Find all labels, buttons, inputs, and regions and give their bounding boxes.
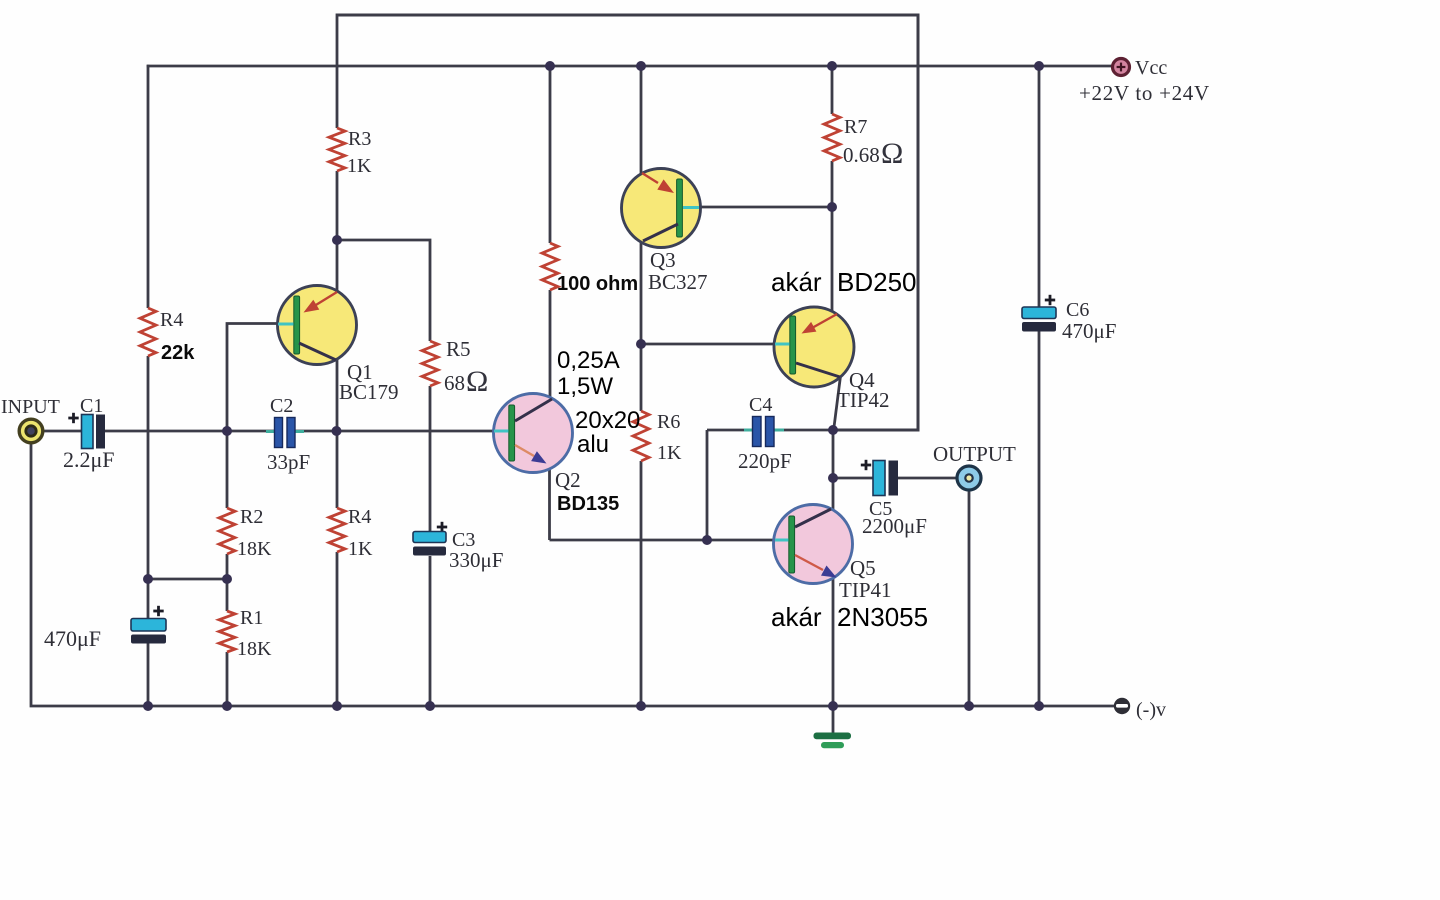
- wire C4 left: [707, 429, 754, 432]
- svg-text:Q2: Q2: [555, 468, 581, 492]
- svg-text:330μF: 330μF: [449, 548, 503, 572]
- junction node Q5 collector / C5: [828, 473, 838, 483]
- svg-text:akár: akár: [771, 602, 822, 632]
- svg-text:+22V to +24V: +22V to +24V: [1079, 81, 1210, 105]
- svg-text:C6: C6: [1066, 299, 1089, 321]
- junction node Vcc rail / Q3: [636, 61, 646, 71]
- wire Q5 emitter down: [832, 578, 835, 706]
- capacitor C3 330uF (polarized): [413, 522, 503, 572]
- resistor R1 18K: [219, 607, 272, 660]
- junction node R2 / R1: [222, 574, 232, 584]
- svg-text:1,5W: 1,5W: [557, 373, 613, 400]
- junction node Vcc rail / 100ohm: [545, 61, 555, 71]
- junction node rail C3: [425, 701, 435, 711]
- svg-text:Ω: Ω: [466, 365, 488, 398]
- svg-text:2N3055: 2N3055: [837, 602, 928, 632]
- svg-text:68: 68: [444, 371, 465, 395]
- junction node Vcc rail / C6: [1034, 61, 1044, 71]
- wire Q2 emitter to Q5 base: [550, 539, 776, 542]
- svg-text:R1: R1: [240, 607, 263, 629]
- transistor Q1 BC179: [278, 286, 399, 405]
- wire R4 1K bottom: [336, 552, 339, 706]
- wire top-rect left drop to R3: [336, 14, 339, 129]
- svg-text:R5: R5: [446, 337, 471, 361]
- wire node link 148-227: [148, 578, 227, 581]
- svg-text:Q5: Q5: [850, 556, 876, 580]
- svg-text:0,25A: 0,25A: [557, 347, 620, 374]
- wire C1 to C2: [105, 430, 276, 433]
- wire node to Q4 base: [641, 343, 775, 346]
- wire R7 top: [831, 66, 834, 114]
- svg-text:C1: C1: [80, 395, 103, 417]
- wire C3 bottom to rail: [429, 556, 432, 706]
- wire Q3 bottom to node: [640, 241, 643, 344]
- junction node Q4 collector / C4: [828, 425, 838, 435]
- svg-text:1K: 1K: [348, 538, 373, 560]
- svg-text:18K: 18K: [237, 538, 272, 560]
- wire R4 22k bottom to node: [147, 356, 150, 620]
- negative supply terminal (-)v: [1114, 698, 1166, 721]
- wire input jack to C1: [43, 430, 82, 433]
- svg-text:33pF: 33pF: [267, 450, 310, 474]
- wire R3 bottom to node: [336, 171, 339, 240]
- wire C5 to output jack: [898, 477, 957, 480]
- resistor R2 18K: [219, 506, 272, 560]
- wire C2 to Q2 base: [294, 430, 495, 433]
- junction node R3 bottom: [332, 235, 342, 245]
- wire 100ohm top: [549, 66, 552, 243]
- svg-text:R7: R7: [844, 116, 867, 138]
- capacitor C1 2.2uF (polarized): [63, 395, 115, 472]
- resistor R4 1K (bias): [329, 506, 373, 560]
- resistor R4 22k: [140, 308, 195, 364]
- wire Q2 emitter down: [548, 462, 551, 540]
- junction node rail R1: [222, 701, 232, 711]
- junction node Q3 / Q4 base / R6: [636, 339, 646, 349]
- svg-text:OUTPUT: OUTPUT: [933, 442, 1016, 466]
- wire Q4 collector to node: [834, 376, 841, 431]
- wire R6 bottom to rail: [640, 461, 643, 706]
- junction node rail R4b: [332, 701, 342, 711]
- svg-text:22k: 22k: [161, 342, 195, 364]
- junction node Vcc rail / R7: [827, 61, 837, 71]
- svg-text:TIP41: TIP41: [839, 578, 892, 602]
- svg-text:R3: R3: [348, 128, 371, 150]
- wire node to Q4 emitter: [831, 207, 834, 313]
- capacitor C5 2200uF (polarized): [861, 460, 927, 538]
- junction node R4 / 470uF: [143, 574, 153, 584]
- wire Q3 top: [640, 66, 643, 175]
- svg-text:2200μF: 2200μF: [862, 514, 927, 538]
- junction node rail R6: [636, 701, 646, 711]
- svg-text:100 ohm: 100 ohm: [557, 273, 638, 295]
- wire C4 right to node: [774, 429, 833, 432]
- svg-text:alu: alu: [577, 431, 609, 458]
- wire Q3 collector to R7 node: [699, 206, 832, 209]
- wire Q1 base branch: [227, 324, 278, 509]
- svg-text:akár: akár: [771, 267, 822, 297]
- junction node rail 470uF: [143, 701, 153, 711]
- svg-text:R4: R4: [160, 309, 183, 331]
- wire 100ohm bottom to Q2: [549, 290, 552, 398]
- Vcc terminal: [1079, 57, 1210, 105]
- wire C4 branch down: [706, 430, 709, 540]
- transistor Q5 TIP41: [774, 505, 892, 603]
- resistor R7 0.68ohm: [824, 114, 903, 170]
- junction node rail output: [964, 701, 974, 711]
- wire R5 bottom to C3: [429, 386, 432, 532]
- svg-text:20x20: 20x20: [575, 407, 640, 434]
- wire C6 bottom: [1038, 331, 1041, 706]
- resistor 100 ohm: [542, 243, 638, 295]
- wire Q1 collector down: [336, 358, 339, 508]
- svg-text:Ω: Ω: [881, 137, 903, 170]
- wire input down left side + ground rail: [31, 443, 1114, 706]
- wire C6 top: [1038, 66, 1041, 308]
- wire top-rect right drop: [834, 14, 918, 431]
- capacitor C4 220pF: [738, 394, 792, 473]
- wire R2 bottom: [226, 554, 229, 611]
- wire top feedback rail: [337, 14, 918, 17]
- svg-text:R4: R4: [348, 506, 371, 528]
- svg-text:INPUT: INPUT: [1, 396, 60, 418]
- transistor Q3 BC327: [622, 169, 708, 295]
- wire Vcc rail: [147, 65, 1113, 68]
- junction node rail C6: [1034, 701, 1044, 711]
- wire R7 bottom to node: [831, 161, 834, 208]
- svg-text:BC179: BC179: [339, 380, 399, 404]
- svg-text:220pF: 220pF: [738, 449, 792, 473]
- junction node R7 / Q3 collector: [827, 202, 837, 212]
- svg-text:18K: 18K: [237, 638, 272, 660]
- wire R4 22k top: [147, 65, 150, 308]
- svg-text:1K: 1K: [657, 442, 682, 464]
- junction node Q2 emitter / Q5 base: [702, 535, 712, 545]
- wire ground stub: [832, 706, 835, 734]
- svg-text:Vcc: Vcc: [1135, 57, 1167, 79]
- svg-text:2.2μF: 2.2μF: [63, 447, 115, 472]
- wire node to R5 top: [337, 240, 430, 341]
- svg-text:470μF: 470μF: [44, 626, 101, 651]
- resistor R6 1K: [633, 411, 682, 464]
- wire node to R6: [640, 344, 643, 411]
- svg-text:R2: R2: [240, 506, 263, 528]
- wire cap470 to ground rail: [147, 642, 150, 706]
- svg-text:0.68: 0.68: [843, 143, 880, 167]
- wire output jack down: [968, 491, 971, 706]
- svg-text:1K: 1K: [347, 155, 372, 177]
- wire Q4 node down to Q5 collector: [832, 430, 835, 511]
- junction node input / R2: [222, 426, 232, 436]
- capacitor 470uF (input decoupling, polarized): [44, 606, 166, 651]
- output jack: [933, 442, 1016, 490]
- svg-text:BD250: BD250: [837, 267, 917, 297]
- svg-text:R6: R6: [657, 411, 680, 433]
- input jack: [1, 396, 60, 443]
- svg-text:BD135: BD135: [557, 493, 619, 515]
- resistor R5 68ohm: [422, 337, 488, 398]
- svg-text:BC327: BC327: [648, 270, 708, 294]
- capacitor C2 33pF: [266, 395, 310, 474]
- ground: [814, 733, 852, 749]
- svg-text:Q3: Q3: [650, 248, 676, 272]
- transistor Q2 BD135: [494, 394, 620, 516]
- resistor R3 1K: [329, 128, 372, 177]
- transistor Q4 TIP42: [774, 307, 890, 412]
- wire R1 bottom: [226, 652, 229, 706]
- wire node to C5: [833, 477, 873, 480]
- junction node rail Q5 emitter: [828, 701, 838, 711]
- svg-text:TIP42: TIP42: [837, 388, 890, 412]
- capacitor C6 470uF (polarized): [1022, 295, 1116, 343]
- junction node Q1 collector / C2: [332, 426, 342, 436]
- svg-text:C2: C2: [270, 395, 293, 417]
- wire node to Q1 emitter: [336, 240, 339, 292]
- svg-text:(-)v: (-)v: [1136, 699, 1166, 721]
- svg-text:C4: C4: [749, 394, 772, 416]
- svg-text:470μF: 470μF: [1062, 319, 1116, 343]
